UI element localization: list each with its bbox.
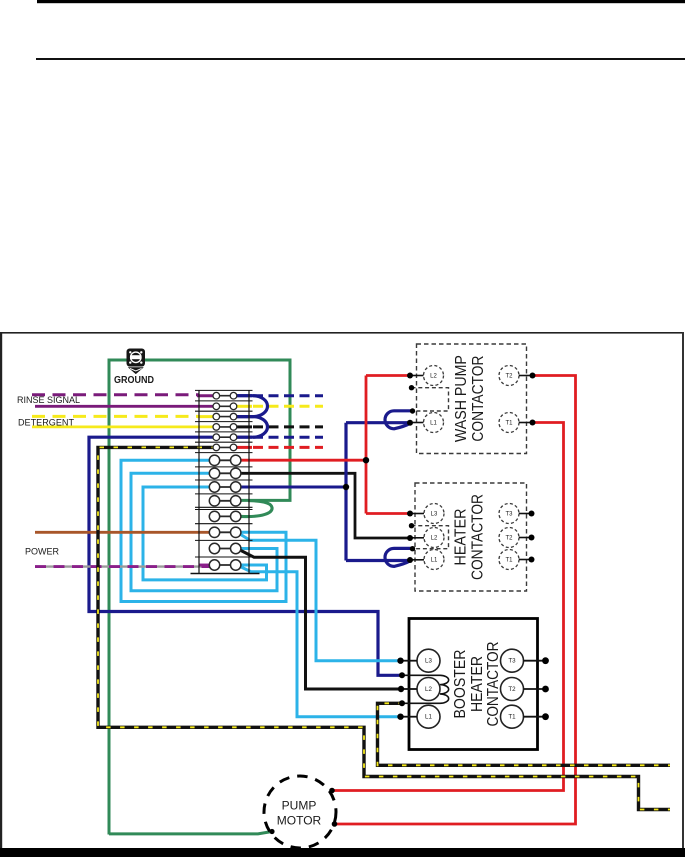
heater terminal T1	[499, 550, 519, 570]
wire cyan terminal 14 to booster L1	[239, 566, 400, 717]
svg-text:CONTACTOR: CONTACTOR	[485, 642, 502, 727]
terminal block	[191, 390, 260, 573]
wire yellow dashed row 2 right	[237, 405, 252, 408]
svg-text:L1: L1	[430, 420, 437, 426]
wash pump terminal T2	[499, 366, 519, 386]
wash pump terminal T1	[499, 413, 519, 433]
diagram frame right border	[682, 332, 684, 857]
svg-text:L1: L1	[425, 714, 432, 721]
wire cyan terminal 12 to booster L3	[239, 534, 400, 661]
wire black dashed row 4 right	[237, 425, 252, 428]
svg-text:POWER: POWER	[25, 547, 59, 558]
booster terminal L3	[417, 649, 440, 672]
wire green ground loop	[109, 360, 290, 835]
header rule thin	[36, 58, 685, 60]
wire rinse signal purple dashed (row 1 left)	[32, 393, 199, 396]
svg-text:L2: L2	[425, 686, 432, 693]
svg-text:CONTACTOR: CONTACTOR	[470, 356, 487, 442]
wire cyan loop terminal 13 to terminal 8	[131, 473, 277, 590]
wire navy dashed row 5 right	[237, 436, 252, 439]
svg-text:MOTOR: MOTOR	[277, 814, 322, 828]
booster coil	[440, 675, 449, 703]
wire power purple/gray dashed (row 14 left)	[35, 565, 211, 567]
diagram frame bottom bar	[0, 848, 685, 857]
booster pin dots	[397, 658, 403, 664]
wire green slack loop terminal 11	[241, 501, 272, 517]
terminal block TB1 row 11	[209, 511, 241, 521]
heater pins	[411, 514, 532, 560]
motor M1 PUMP MOTOR (dashed circle)	[264, 776, 336, 848]
wire navy to heater L1	[346, 559, 408, 562]
wire navy row 9 to junction	[238, 486, 346, 489]
svg-text:T2: T2	[508, 686, 516, 693]
pump motor connection dots	[329, 788, 335, 794]
wire cyan loop terminal 14 to terminal 9	[143, 487, 267, 580]
heater aux contact dashed link	[412, 526, 449, 549]
terminal block TB1 row 13	[209, 543, 241, 553]
wire navy row 5 left + big U to booster coil top	[89, 437, 403, 675]
terminal block TB1 row 9	[209, 482, 241, 492]
wire red dashed row 6 right	[237, 446, 252, 449]
diagram frame top border	[0, 332, 684, 334]
terminal block TB1 row 10	[209, 496, 241, 506]
junction dot red row7	[363, 457, 369, 463]
heater terminal L1	[424, 550, 444, 570]
svg-text:CONTACTOR: CONTACTOR	[470, 494, 487, 580]
wire black terminal 8 to heater L2	[241, 473, 409, 538]
svg-text:L3: L3	[425, 658, 432, 665]
terminal block TB1 row 6	[213, 444, 237, 451]
terminal block TB1 row 4	[213, 424, 237, 431]
svg-text:T2: T2	[505, 373, 513, 379]
wire black/yellow dashed: booster aux2 to right edge	[378, 703, 671, 765]
svg-text:T3: T3	[508, 658, 516, 665]
svg-text:HEATER: HEATER	[469, 656, 486, 712]
booster pins	[401, 661, 546, 717]
wire purple solid into row 14	[199, 564, 214, 567]
terminal block TB1 row 2	[213, 403, 237, 410]
svg-text:RINSE SIGNAL: RINSE SIGNAL	[17, 395, 80, 406]
junction dot navy row9	[343, 484, 349, 490]
svg-text:T3: T3	[505, 511, 513, 517]
svg-text:T1: T1	[505, 557, 513, 563]
wire cyan loop terminal 12 to terminal 7	[121, 460, 286, 601]
wire navy dashed row 1 right	[237, 394, 252, 397]
wire black terminal 13 to booster L2	[239, 550, 401, 690]
wire red vertical wash L2 / heater L3	[365, 376, 368, 514]
contactor K2 HEATER CONTACTOR (dashed box)	[415, 483, 527, 591]
terminal block TB1 row 3	[213, 413, 237, 420]
svg-text:T1: T1	[508, 714, 516, 721]
wire red to wash L2	[366, 374, 409, 377]
terminal block TB1 row 7	[209, 455, 241, 465]
wire purple solid (row 2 left)	[35, 405, 214, 408]
wire navy slack loop heater L1-aux	[385, 548, 412, 566]
wire navy to wash pump L1	[346, 421, 408, 424]
terminal block TB1 row 12	[209, 527, 241, 537]
wash pump aux contact dashed link	[412, 388, 449, 411]
heater terminal T3	[499, 504, 519, 524]
heater terminal T2	[499, 528, 519, 548]
wash pump pins	[411, 376, 533, 423]
booster coil feed lines	[402, 675, 440, 703]
svg-text:T2: T2	[505, 535, 513, 541]
booster terminal T1	[501, 705, 524, 728]
wire navy vertical wash L1 / heater L1	[344, 423, 347, 561]
wash pump pin dots	[407, 373, 413, 379]
wire black/yellow dashed: row 6 left loop to bottom right	[98, 447, 670, 809]
wash pump terminal L1	[424, 413, 444, 433]
svg-text:L3: L3	[431, 511, 438, 517]
wire red row 7 to junction	[241, 459, 366, 462]
svg-text:WASH PUMP: WASH PUMP	[453, 355, 470, 442]
wire red to heater L3	[366, 512, 409, 515]
terminal block TB1 row 8	[209, 468, 241, 478]
wire red wash T1 to pump motor	[333, 423, 564, 791]
wire red wash T2 to pump motor	[335, 376, 576, 825]
wire yellow solid (row 4 left)	[32, 425, 214, 428]
svg-text:PUMP: PUMP	[282, 799, 317, 813]
header rule thick	[37, 0, 685, 3]
svg-text:T1: T1	[505, 420, 513, 426]
wire navy slack loop wash L1-aux	[385, 411, 412, 429]
wash pump terminal L2	[424, 366, 444, 386]
booster terminal L2	[417, 678, 440, 701]
wire detergent yellow dashed (row 3 left)	[32, 415, 199, 418]
svg-text:DETERGENT: DETERGENT	[18, 418, 74, 429]
ground symbol	[127, 349, 146, 375]
diagram frame left border	[0, 332, 2, 857]
svg-text:GROUND: GROUND	[114, 375, 154, 386]
svg-text:L2: L2	[430, 373, 437, 379]
terminal block TB1 row 1	[213, 392, 237, 399]
svg-text:L1: L1	[431, 557, 438, 563]
heater terminal L3	[424, 504, 444, 524]
contactor K1 WASH PUMP CONTACTOR (dashed box)	[417, 344, 527, 454]
heater terminal L2	[424, 528, 444, 548]
heater pin dots	[407, 511, 413, 517]
svg-text:HEATER: HEATER	[453, 509, 470, 566]
wire navy jumper terminals 3-5	[237, 417, 268, 438]
wire brown power (row 12 left)	[35, 531, 214, 534]
svg-text:BOOSTER: BOOSTER	[452, 650, 469, 719]
booster terminal L1	[417, 705, 440, 728]
contactor K3 BOOSTER HEATER CONTACTOR (solid box)	[409, 619, 538, 750]
booster terminal T2	[501, 678, 524, 701]
wire navy jumper terminals 1-3	[237, 396, 268, 417]
svg-text:L2: L2	[431, 535, 438, 541]
wire green to pump motor	[109, 832, 272, 834]
booster terminal T3	[501, 649, 524, 672]
terminal block TB1 row 14	[209, 560, 241, 570]
terminal block TB1 row 5	[213, 434, 237, 441]
